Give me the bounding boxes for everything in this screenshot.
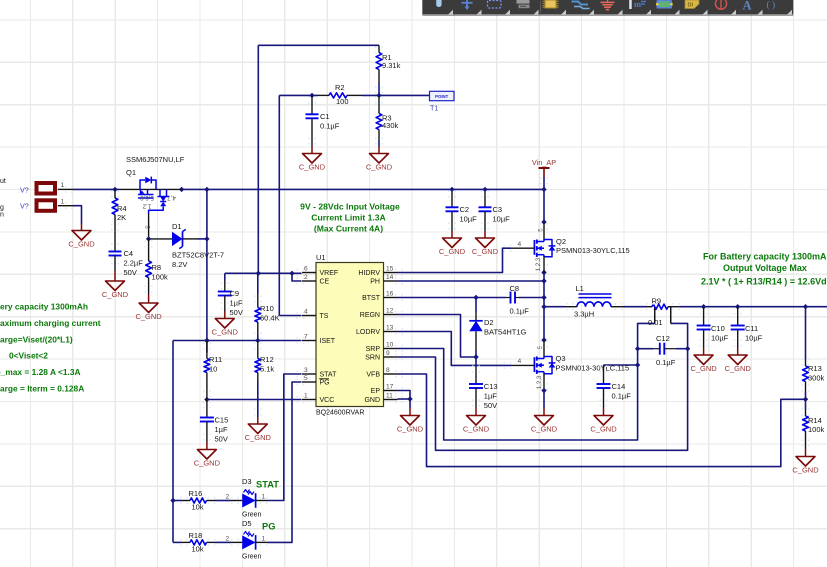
svg-text:C4: C4 [124,249,134,258]
capacitor C4 leads [114,232,116,252]
ground C_GND [690,348,717,374]
svg-text:9: 9 [386,350,390,357]
svg-text:C_GND: C_GND [194,459,221,468]
svg-text:VCC: VCC [320,397,335,404]
connector P1 [20,182,73,194]
svg-text:50V: 50V [230,308,243,317]
svg-text:Green: Green [242,553,262,560]
svg-text:STAT: STAT [256,480,279,490]
svg-text:C_GND: C_GND [245,433,272,442]
capacitor C3 [479,205,511,223]
wire PG net [268,382,302,542]
svg-text:1,2,3: 1,2,3 [536,375,543,389]
svg-text:6: 6 [304,266,308,273]
svg-text:ISET: ISET [320,338,336,345]
svg-text:R12: R12 [260,355,274,364]
ground C_GND [590,408,617,434]
wire VFB sense [398,374,809,467]
svg-text:1,2,3: 1,2,3 [535,257,542,271]
svg-text:D2: D2 [484,318,494,327]
svg-text:Q2: Q2 [556,237,566,246]
capacitor C9 leads [224,281,226,292]
svg-text:0.1µF: 0.1µF [656,358,676,367]
svg-text:15: 15 [386,266,394,273]
svg-text:C_GND: C_GND [590,425,617,434]
svg-text:1: 1 [61,182,65,189]
inductor L1 [565,284,623,319]
svg-text:16: 16 [386,291,394,298]
svg-text:2.1V * ( 1+ R13/R14 ) = 12.6Vd: 2.1V * ( 1+ R13/R14 ) = 12.6Vdc [701,276,827,286]
ground C_GND [439,231,466,256]
svg-text:SRP: SRP [366,346,381,353]
svg-text:2: 2 [226,494,230,501]
svg-text:14: 14 [386,274,394,281]
resistor R3 [376,95,398,140]
svg-text:13: 13 [386,325,394,332]
note battery capacity left [0,302,101,394]
svg-text:STAT: STAT [320,372,338,379]
wire VCC net [204,397,301,402]
capacitor C15 [200,416,228,444]
capacitor C10 leads [703,307,705,326]
svg-text:2: 2 [304,274,308,281]
capacitor C11 [731,324,763,342]
svg-text:C_GND: C_GND [439,247,466,256]
wire BTST [398,295,545,312]
svg-text:5,6,8: 5,6,8 [140,194,154,201]
svg-text:arge = Iterm = 0.128A: arge = Iterm = 0.128A [0,383,84,393]
svg-text:17: 17 [386,384,394,391]
wire R2 TS net [279,93,429,316]
svg-text:EP: EP [371,388,381,395]
svg-text:R10: R10 [260,304,274,313]
svg-text:SRN: SRN [365,355,380,362]
test point T1 [430,91,455,112]
svg-text:R8: R8 [152,263,162,272]
svg-text:50V: 50V [484,401,497,410]
svg-text:C8: C8 [510,284,520,293]
svg-text:arge=Viset/(20*L1): arge=Viset/(20*L1) [0,335,73,345]
svg-text:R2: R2 [335,83,345,92]
svg-text:8: 8 [386,367,390,374]
transistor Q3 [511,340,629,393]
wire R1 bottom [378,83,380,95]
svg-text:ut: ut [0,178,6,185]
svg-text:10µF: 10µF [493,214,511,223]
wire R10 R12 chain [257,273,259,417]
resistor R2 [318,83,362,106]
wire R9 kelvin taps [655,307,671,323]
svg-text:4: 4 [518,241,522,248]
svg-text:2K: 2K [117,213,126,222]
toolbar [422,0,793,16]
svg-text:D1: D1 [172,222,182,231]
svg-text:Q3: Q3 [556,354,566,363]
svg-text:60.4K: 60.4K [260,314,280,323]
svg-text:10µF: 10µF [460,214,478,223]
svg-text:R13: R13 [808,364,822,373]
svg-text:TS: TS [320,313,329,320]
capacitor C14 [597,382,632,400]
resistor R12 [255,341,275,382]
wire HIDRV [398,248,512,272]
note output voltage right [701,252,827,287]
svg-text:C_GND: C_GND [299,163,326,172]
svg-text:REGN: REGN [360,312,380,319]
svg-text:A: A [743,0,752,12]
svg-text:Green: Green [242,512,262,519]
svg-text:1µF: 1µF [230,298,243,307]
wire EP GND [398,391,413,409]
svg-text:BTST: BTST [362,295,381,302]
capacitor C14 leads [603,365,605,384]
svg-text:DI: DI [688,3,694,9]
svg-text:1: 1 [304,393,308,400]
ground C_GND [299,147,326,172]
pin connection marks [65,46,809,546]
resistor R4 [112,189,126,232]
svg-text:430k: 430k [382,121,399,130]
wire output rail [623,304,827,410]
svg-text:Vin_AP: Vin_AP [532,158,556,167]
op-amp U1 BQ24600RVAR [302,253,398,416]
svg-text:12: 12 [386,308,394,315]
svg-text:( ): ( ) [767,0,776,11]
note input voltage [300,202,400,234]
svg-text:C_GND: C_GND [792,466,819,475]
ground C_GND [531,408,558,434]
svg-text:PSMN013-30YLC,115: PSMN013-30YLC,115 [556,246,630,255]
svg-text:100k: 100k [152,273,169,282]
svg-text:g: g [0,205,4,212]
svg-text:C_GND: C_GND [690,364,717,373]
wire LODRV to Q3 gate [398,332,512,366]
svg-text:V?: V? [20,185,29,194]
svg-text:5.1k: 5.1k [260,365,274,374]
diode D1 zener [146,222,224,269]
svg-text:C10: C10 [711,324,725,333]
svg-text:5: 5 [304,375,308,382]
svg-text:C11: C11 [745,324,758,333]
wire P2 to ground [73,206,82,224]
svg-text:100: 100 [336,97,349,106]
svg-text:D5: D5 [242,519,252,528]
LED D5 [226,519,276,561]
capacitor C2 [446,205,478,223]
capacitor C9 [218,289,243,317]
svg-text:C_GND: C_GND [531,425,558,434]
svg-text:ery capacity 1300mAh: ery capacity 1300mAh [0,302,88,312]
svg-text:C_GND: C_GND [397,425,424,434]
svg-text:PG: PG [262,521,275,531]
svg-text:9V - 28Vdc Input Voltage: 9V - 28Vdc Input Voltage [300,202,400,212]
svg-text:HIDRV: HIDRV [358,270,380,277]
wire ISET net [170,338,301,543]
svg-text:10µF: 10µF [711,333,729,342]
svg-text:V?: V? [20,202,29,211]
capacitor C10 [697,324,729,342]
svg-text:10: 10 [209,365,217,374]
resistor R10 [255,294,280,335]
svg-text:0.1µF: 0.1µF [612,391,632,400]
svg-text:BAT54HT1G: BAT54HT1G [484,327,527,336]
svg-text:4,7: 4,7 [167,194,176,201]
svg-text:(Max Current 4A): (Max Current 4A) [314,224,383,234]
svg-text:VREF: VREF [320,270,339,277]
node fragment texts left edge [0,178,6,219]
svg-text:Q1: Q1 [126,168,136,177]
svg-text:C_GND: C_GND [725,364,752,373]
svg-text:1µF: 1µF [484,391,497,400]
svg-text:U1: U1 [316,253,326,262]
svg-text:C2: C2 [460,205,470,214]
svg-text:C9: C9 [230,289,240,298]
svg-text:7: 7 [304,334,308,341]
capacitor C1 leads [311,95,313,114]
svg-text:0<Viset<2: 0<Viset<2 [9,351,48,361]
svg-text:BZT52C8V2T-7: BZT52C8V2T-7 [172,251,224,260]
LED D3 [226,477,280,519]
wire SRP sense [398,308,655,441]
capacitor C8 [506,284,529,316]
resistor R11 [204,341,222,400]
wire SRN sense [398,308,691,451]
svg-text:C3: C3 [493,205,503,214]
wire VREF net [225,45,379,281]
capacitor C13 leads [475,364,477,367]
svg-text:10µF: 10µF [745,333,763,342]
svg-text:C_GND: C_GND [366,163,393,172]
svg-text:R18: R18 [189,531,203,540]
svg-text:C_GND: C_GND [463,425,490,434]
wire Q3 source to ground [543,391,545,409]
svg-text:0.01: 0.01 [648,318,663,327]
svg-text:50V: 50V [124,268,137,277]
svg-text:GND: GND [364,397,380,404]
ground C_GND [68,224,95,249]
svg-text:e_max = 1.28 A <1.3A: e_max = 1.28 A <1.3A [0,367,81,377]
svg-text:3: 3 [144,225,151,229]
svg-text:10k: 10k [192,503,204,512]
svg-text:C13: C13 [484,382,498,391]
capacitor C11 leads [737,307,739,326]
svg-text:0.1µF: 0.1µF [510,307,530,316]
svg-text:100k: 100k [808,425,825,434]
ground C_GND [725,348,752,374]
resistor R16 [182,489,215,512]
svg-text:C_GND: C_GND [212,328,239,337]
ground C_GND [463,408,490,434]
svg-text:1,2: 1,2 [142,203,151,210]
svg-text:Output Voltage Max: Output Voltage Max [723,263,807,273]
capacitor C13 [469,382,498,410]
resistor R8 [146,239,168,294]
ground C_GND [102,270,129,299]
svg-text:1µF: 1µF [215,425,228,434]
svg-text:9.31k: 9.31k [382,61,401,70]
svg-text:1: 1 [262,535,266,542]
svg-text:C1: C1 [320,112,330,121]
svg-text:C15: C15 [215,416,229,425]
capacitor C2 leads [451,189,453,207]
ground C_GND [366,147,393,172]
capacitor C3 leads [484,189,486,207]
svg-text:BQ24600RVAR: BQ24600RVAR [316,410,364,417]
svg-text:T1: T1 [430,104,438,113]
svg-text:8.2V: 8.2V [172,260,187,269]
svg-text:n: n [0,212,4,219]
power port Vin_AP [532,158,556,177]
svg-text:4: 4 [518,358,522,365]
svg-text:C12: C12 [656,334,670,343]
svg-text:C_GND: C_GND [68,240,95,249]
transistor Q2 [511,222,630,273]
capacitor C15 leads [206,400,208,418]
svg-text:SSM6J507NU,LF: SSM6J507NU,LF [126,155,185,164]
svg-text:R16: R16 [189,489,203,498]
svg-text:POINT: POINT [435,94,449,99]
svg-text:2: 2 [226,535,230,542]
resistor R9 [647,296,679,327]
svg-text:11: 11 [386,393,393,400]
svg-text:R4: R4 [117,204,127,213]
svg-text:10: 10 [386,342,394,349]
svg-text:PH: PH [370,279,380,286]
svg-text:2.2µF: 2.2µF [124,258,144,267]
ground C_GND [792,448,819,475]
svg-text:PSMN013-30YLC,115: PSMN013-30YLC,115 [556,363,630,372]
ground C_GND [212,311,239,337]
svg-text:R11: R11 [209,355,222,364]
svg-text:4: 4 [304,309,308,316]
connector P2 [20,199,73,211]
wire Vin rail to Q2 drain [541,177,546,225]
svg-text:300k: 300k [808,374,825,383]
ground C_GND [397,408,424,434]
wire PH node [398,270,566,343]
capacitor C12 [653,334,676,367]
svg-text:VFB: VFB [366,372,380,379]
resistor R18 [182,531,215,554]
svg-text:C_GND: C_GND [102,290,129,299]
wire REGN [398,315,479,365]
ground C_GND [135,294,162,321]
ground C_GND [472,231,499,256]
svg-text:3.3µH: 3.3µH [574,310,594,319]
svg-text:LODRV: LODRV [356,329,380,336]
resistor R13 [803,360,825,393]
wire input net [73,187,547,353]
transistor Q1 [119,155,185,239]
svg-text:aximum charging current: aximum charging current [0,318,101,328]
svg-text:L1: L1 [576,284,584,293]
resistor R14 [803,410,825,448]
svg-text:10k: 10k [192,545,204,554]
svg-text:50V: 50V [215,434,228,443]
resistor R1 [376,45,400,83]
ground C_GND [194,442,221,468]
svg-text:C14: C14 [612,382,626,391]
svg-text:C_GND: C_GND [135,312,162,321]
svg-text:0.1µF: 0.1µF [320,121,340,130]
wire STAT net [268,374,302,501]
capacitor C1 [306,112,340,130]
capacitor C4 [109,249,144,277]
svg-text:m: m [634,0,641,9]
svg-text:3: 3 [304,367,308,374]
svg-text:Current Limit 1.3A: Current Limit 1.3A [311,213,386,223]
svg-text:1: 1 [61,199,65,206]
svg-text:D3: D3 [242,477,252,486]
svg-text:C_GND: C_GND [472,247,499,256]
svg-text:CE: CE [320,279,330,286]
svg-text:R14: R14 [808,416,822,425]
svg-text:For Battery capacity 1300mAh: For Battery capacity 1300mAh [703,252,827,262]
svg-text:PG: PG [320,380,330,387]
svg-text:1: 1 [262,494,266,501]
ground C_GND [245,417,272,442]
diode D2 [469,312,526,357]
